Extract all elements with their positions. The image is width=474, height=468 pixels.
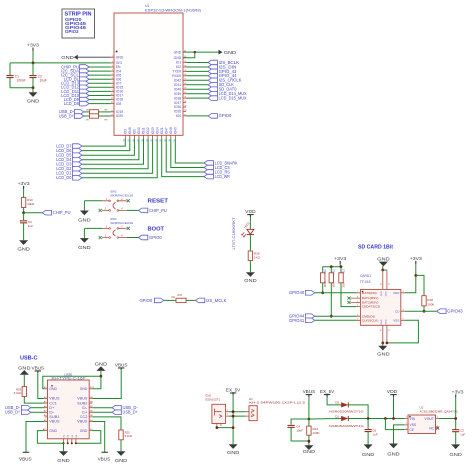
net label LCD_D3 <box>73 162 82 167</box>
power VDD bar <box>247 215 253 217</box>
svg-text:VBUS: VBUS <box>32 365 45 370</box>
capacitor C4 <box>288 425 295 427</box>
wire USB_D- to U1 <box>99 111 111 113</box>
svg-text:SUB1: SUB1 <box>49 415 59 419</box>
svg-text:3: 3 <box>406 428 407 430</box>
wire EX_5V column <box>232 395 234 444</box>
power EX_5V bar <box>324 395 330 397</box>
wire C4 to gnd rail <box>291 427 309 441</box>
usb connector USB1 body <box>48 380 90 439</box>
wire C5 to gnd <box>455 432 457 445</box>
CARD1 right pin stubs <box>401 293 405 321</box>
svg-text:D2: D2 <box>335 400 339 404</box>
svg-text:IO35: IO35 <box>174 110 181 114</box>
svg-text:3: 3 <box>357 315 358 317</box>
net label LCD_D12 <box>80 85 89 90</box>
ground below CARD1 <box>378 346 387 351</box>
svg-text:100K: 100K <box>427 303 434 307</box>
svg-text:I2S_MCLK: I2S_MCLK <box>206 298 227 303</box>
svg-text:IO12: IO12 <box>146 127 150 134</box>
svg-text:GPIO0: GPIO0 <box>219 113 232 118</box>
net label GPIO40 <box>305 291 314 296</box>
wire LCD_BL <box>89 78 111 80</box>
wire rail to R13 <box>340 267 342 273</box>
wire +3V3 column <box>455 397 457 429</box>
svg-text:D+: D+ <box>82 411 87 415</box>
svg-text:100K: 100K <box>313 431 320 435</box>
svg-text:ESP32-S3-WROOM-1(N16R8): ESP32-S3-WROOM-1(N16R8) <box>145 8 201 12</box>
U2 pin stubs <box>405 419 440 430</box>
svg-text:GND: GND <box>17 246 30 251</box>
wire C1 top lead <box>9 63 11 76</box>
svg-text:CHIP_PU: CHIP_PU <box>149 208 167 213</box>
net label LCD_D2 <box>73 166 82 171</box>
net label USB_D- <box>21 405 30 410</box>
net label I2S_DIN <box>208 65 217 70</box>
svg-text:GPIO0: GPIO0 <box>149 235 162 240</box>
svg-text:1KΩ: 1KΩ <box>254 256 261 260</box>
capacitor C6 <box>365 430 372 432</box>
capacitor C3 <box>20 221 27 223</box>
wire USB_D- <box>31 407 45 409</box>
no-connect SW3 pin3 <box>99 236 102 239</box>
svg-text:2: 2 <box>112 61 113 63</box>
junction <box>308 440 311 443</box>
svg-text:LCD_WR: LCD_WR <box>215 174 230 179</box>
wire R24 to gnd <box>308 435 310 445</box>
wire to CHIP_PU label <box>24 212 43 214</box>
svg-text:32: 32 <box>184 92 186 94</box>
wire C6 to gnd <box>367 432 369 445</box>
wire USB_D+ to U1 <box>99 115 111 117</box>
ground below C6 <box>364 444 373 449</box>
junction <box>381 342 384 345</box>
wire VBUS to A4 <box>38 373 45 398</box>
CARD1 left pin stubs <box>351 293 361 321</box>
net label LCD_D4 <box>73 157 82 162</box>
svg-text:D+: D+ <box>49 406 54 410</box>
power flag GND right of U1 <box>219 50 223 55</box>
svg-text:IO42: IO42 <box>174 79 181 83</box>
svg-text:GND: GND <box>385 291 387 296</box>
wire CN2 sleeve to gnd <box>217 426 233 428</box>
svg-text:GND: GND <box>303 449 316 454</box>
wire LED1 to R28 <box>249 235 251 251</box>
ground <box>246 272 255 277</box>
svg-text:IO40: IO40 <box>174 87 181 91</box>
svg-text:R11: R11 <box>324 269 327 274</box>
svg-text:SKRPACE010: SKRPACE010 <box>110 193 133 197</box>
wire GPIO_44 <box>186 75 208 77</box>
svg-text:GND: GND <box>381 319 383 324</box>
power VBUS bar <box>118 368 124 370</box>
wire LCD_D5 <box>82 138 134 155</box>
wire CC2 to R25 <box>92 417 121 430</box>
wire VBUS down right <box>92 422 104 453</box>
net label LCD_D11 <box>80 89 89 94</box>
svg-text:GND: GND <box>244 278 257 283</box>
net label LCD_D10 <box>80 93 89 98</box>
wire I2C_SCL <box>89 74 111 76</box>
svg-text:VDD: VDD <box>387 389 398 394</box>
svg-text:LCD_D8: LCD_D8 <box>64 101 80 106</box>
net label GPIO41 <box>305 318 314 323</box>
svg-text:GND: GND <box>362 452 375 457</box>
net label USB_D+ <box>21 410 30 415</box>
svg-text:5.1kΩ: 5.1kΩ <box>14 391 21 395</box>
resistor R25 5.1k <box>119 430 123 440</box>
svg-text:VBUS: VBUS <box>115 362 128 367</box>
ground <box>80 238 89 243</box>
svg-text:5: 5 <box>112 74 113 76</box>
svg-text:+3V3: +3V3 <box>334 256 347 261</box>
no-connect SW2 pin2 <box>127 199 130 202</box>
switch SW3 contacts <box>102 228 127 237</box>
net label GPIO_43 <box>208 69 217 74</box>
resistor R23 5.1k <box>22 387 26 397</box>
svg-text:5: 5 <box>437 417 438 419</box>
resistor R8 0ohm <box>90 110 99 114</box>
power VBUS bar <box>35 371 41 373</box>
svg-text:IO39: IO39 <box>174 92 181 96</box>
svg-text:14: 14 <box>111 114 113 116</box>
svg-text:IO11: IO11 <box>142 127 146 134</box>
svg-text:35: 35 <box>184 79 186 81</box>
svg-text:7: 7 <box>357 291 358 293</box>
svg-text:LCD_D15_MUX: LCD_D15_MUX <box>219 95 247 100</box>
wire rail to CE <box>385 419 404 430</box>
wire VDD to LED1 <box>249 217 251 229</box>
net label LCD_RS <box>204 170 213 175</box>
wire GPIO0 to R17 <box>164 299 176 301</box>
svg-text:SD CARD 1Bit: SD CARD 1Bit <box>358 245 393 251</box>
wire R18 to CD <box>423 306 425 311</box>
wire I2S_BCLK <box>186 62 208 64</box>
svg-text:IO3: IO3 <box>124 129 128 134</box>
svg-text:GND: GND <box>57 458 70 463</box>
svg-text:5.1kΩ: 5.1kΩ <box>125 434 132 438</box>
net label CHIP_PU <box>138 208 147 213</box>
junction <box>392 417 395 420</box>
svg-text:B8: B8 <box>90 401 93 403</box>
net label GPIO0 <box>154 298 163 303</box>
no-connect SW2 pin3 <box>99 209 102 212</box>
wire <box>10 62 111 64</box>
svg-text:SKRPACE010: SKRPACE010 <box>110 221 133 225</box>
junction <box>381 269 384 272</box>
capacitor C1 plates <box>6 76 13 78</box>
svg-text:SUB2: SUB2 <box>77 401 87 405</box>
CARD1 pin-1 dot <box>362 291 364 293</box>
wire LCD_D6 <box>82 138 130 150</box>
wire GPIO44 to CMD <box>315 315 357 317</box>
svg-text:VBUS: VBUS <box>77 397 88 401</box>
svg-text:GND: GND <box>49 429 57 433</box>
net label LCD_D15_MUX <box>208 96 217 101</box>
wire LCD_D15_MUX <box>186 97 208 99</box>
svg-text:1: 1 <box>357 301 358 303</box>
svg-text:DAT0(D0): DAT0(D0) <box>362 291 377 295</box>
wire I2S_LRCLK <box>186 79 208 81</box>
USB1 pin-1 dot <box>51 385 53 387</box>
svg-text:VSS: VSS <box>393 318 399 322</box>
ground below U2 <box>389 444 398 449</box>
junction shield pins <box>63 442 65 444</box>
svg-text:11: 11 <box>388 330 390 332</box>
svg-text:RESET: RESET <box>148 199 169 205</box>
svg-text:IO13: IO13 <box>151 127 155 134</box>
junction <box>232 410 235 413</box>
svg-text:8: 8 <box>112 86 113 88</box>
svg-text:+3V3: +3V3 <box>18 181 31 186</box>
svg-text:R9: R9 <box>105 119 109 121</box>
net label CHIP_PU <box>42 210 51 215</box>
svg-text:IO2: IO2 <box>176 65 182 69</box>
net label LCD_CS <box>204 165 213 170</box>
svg-text:IO20: IO20 <box>116 114 123 118</box>
net label I2S_MCLK <box>195 298 204 303</box>
svg-text:9: 9 <box>112 90 113 92</box>
svg-text:37: 37 <box>184 70 186 72</box>
svg-text:33: 33 <box>184 88 186 90</box>
USB1 left pin stubs <box>44 389 47 431</box>
svg-text:IO46: IO46 <box>128 127 132 134</box>
svg-text:2: 2 <box>406 423 407 425</box>
wire VSS to gnd <box>394 425 405 444</box>
resistor R18 <box>422 296 426 306</box>
junction <box>330 315 333 318</box>
wire LCD_D14_MUX <box>186 93 208 95</box>
wire C1 bottom lead <box>9 78 11 88</box>
net label LCD_D6 <box>73 148 82 153</box>
junction GND <box>194 51 196 53</box>
ground <box>29 92 38 97</box>
net label LCD_3MARK <box>204 161 213 166</box>
wire SD_CLK <box>186 84 208 86</box>
resistor R24 <box>307 426 311 435</box>
svg-text:VOUT: VOUT <box>424 417 434 421</box>
regulator U2 body <box>408 415 436 434</box>
svg-text:USB_D+: USB_D+ <box>123 410 139 415</box>
wire USB_D- <box>92 407 112 409</box>
wire R17 to I2S_MCLK <box>186 299 195 301</box>
wire LCD_RS <box>166 138 204 172</box>
wire A1 GND over box <box>43 376 101 389</box>
net label LCD_D5 <box>73 153 82 158</box>
wire LCD_D8 <box>89 103 111 105</box>
svg-text:GND: GND <box>18 365 31 370</box>
svg-text:+3V3: +3V3 <box>452 390 465 395</box>
wire to R18 <box>416 275 424 295</box>
svg-text:6: 6 <box>112 78 113 80</box>
svg-text:1uF: 1uF <box>460 433 465 437</box>
resistor R13 100K <box>339 273 343 283</box>
svg-text:0R: 0R <box>86 119 89 121</box>
U1 bottom pin stubs <box>125 135 175 138</box>
svg-text:IO41: IO41 <box>174 83 181 87</box>
svg-text:27: 27 <box>184 114 186 116</box>
net label GPIO0 <box>138 235 147 240</box>
svg-text:IO21: IO21 <box>160 127 164 134</box>
svg-text:IO47: IO47 <box>164 127 168 134</box>
svg-text:4: 4 <box>403 291 404 293</box>
svg-text:EX_5V: EX_5V <box>320 389 335 394</box>
wire node to C3 <box>23 213 25 220</box>
svg-text:1: 1 <box>406 417 407 419</box>
wire switch to GPIO0 <box>127 237 139 239</box>
switch SW2 actuator arc <box>113 202 115 208</box>
wire LCD_3MARK <box>175 138 204 163</box>
svg-text:VIN: VIN <box>410 417 416 421</box>
mcu U1 ESP32-S3-WROOM-1 body <box>114 13 183 135</box>
svg-text:IO0: IO0 <box>176 114 182 118</box>
net label LCD_D8 <box>80 101 89 106</box>
svg-text:13: 13 <box>111 110 113 112</box>
svg-text:11: 11 <box>111 98 113 100</box>
svg-text:CHIP_PU: CHIP_PU <box>53 210 71 215</box>
svg-text:8: 8 <box>357 297 358 299</box>
junction <box>32 86 35 89</box>
wire CN2 to H1 pin2 <box>229 415 246 417</box>
power EX_5V bar <box>230 393 236 395</box>
net label USB_D+ <box>74 114 83 119</box>
wire R28 to gnd <box>249 261 251 273</box>
USB1 right pin stubs <box>89 389 92 431</box>
wire LCD_WR <box>162 138 204 176</box>
junction <box>384 417 387 420</box>
svg-text:30: 30 <box>184 101 186 103</box>
svg-text:VBUS: VBUS <box>19 457 32 462</box>
net label GPIO44 <box>305 314 314 319</box>
ground symbol <box>96 366 105 371</box>
switch SW2 contacts <box>102 201 127 211</box>
svg-text:28: 28 <box>184 110 186 112</box>
net label I2S_LRCLK <box>208 78 217 83</box>
svg-text:LTST-C190KRKT: LTST-C190KRKT <box>232 217 236 249</box>
svg-text:7: 7 <box>112 82 113 84</box>
wire LCD_D10 <box>89 95 111 97</box>
resistor R12 100K <box>329 273 333 283</box>
svg-text:100nF: 100nF <box>17 79 26 83</box>
wire CN2 to H1 pin1 <box>229 411 246 413</box>
svg-text:13: 13 <box>379 284 381 286</box>
svg-text:VBUS: VBUS <box>49 397 60 401</box>
resistor R17 0ohm <box>176 298 186 302</box>
junction <box>216 426 219 429</box>
svg-text:1: 1 <box>112 56 113 58</box>
wire rail to C6 <box>367 419 369 430</box>
wire gnd stem <box>100 371 102 376</box>
wire CD to GPIO43 <box>405 310 437 312</box>
wire gnd stem <box>382 266 384 270</box>
wire GPIO0 <box>186 115 208 117</box>
wire C2 bottom lead <box>32 78 34 88</box>
net label SD_DAT0 <box>208 87 217 92</box>
connector CN2 body <box>212 404 226 423</box>
svg-text:GND: GND <box>174 50 182 54</box>
power VBUS bottom-right <box>102 451 108 453</box>
svg-text:EX_5V: EX_5V <box>226 387 241 392</box>
wire U1 GND pin61 <box>183 51 219 53</box>
svg-text:10kΩ: 10kΩ <box>27 202 35 206</box>
power VDD bar <box>390 395 396 397</box>
svg-text:100K: 100K <box>324 281 327 287</box>
svg-text:0Ω: 0Ω <box>171 295 174 299</box>
wire LCD_D11 <box>89 90 111 92</box>
svg-text:USB_D+: USB_D+ <box>5 410 21 415</box>
net label I2S_BCLK <box>208 60 217 65</box>
wire LCD_D12 <box>89 86 111 88</box>
net label LCD_D14_MUX <box>208 91 217 96</box>
junction <box>232 426 235 429</box>
wire GND to U1 <box>78 56 111 58</box>
wire LCD_D13 <box>89 82 111 84</box>
svg-text:R17: R17 <box>178 293 183 297</box>
wire R13 to CDDAT3 <box>341 283 357 307</box>
svg-text:R12: R12 <box>333 269 336 274</box>
svg-text:GND: GND <box>78 245 91 250</box>
svg-text:KH-2.54PW180-1X2P-L11.5: KH-2.54PW180-1X2P-L11.5 <box>249 401 305 405</box>
svg-text:GND: GND <box>80 387 88 391</box>
junction <box>423 310 426 313</box>
svg-text:0R: 0R <box>86 110 89 112</box>
wire VBUS to B9 <box>92 370 121 398</box>
wire gnd rail <box>10 87 33 89</box>
svg-text:GPIO40: GPIO40 <box>289 290 305 295</box>
wire shield bus to gnd <box>63 443 65 451</box>
CARD1 top GND pin stubs <box>383 270 387 289</box>
net label USB_D- <box>74 110 83 115</box>
svg-text:34: 34 <box>184 83 186 85</box>
svg-text:CC2: CC2 <box>80 415 88 419</box>
wire +3V3 to R10 <box>23 189 25 198</box>
svg-text:GND: GND <box>27 99 40 104</box>
svg-text:3: 3 <box>112 65 113 67</box>
junction <box>386 342 389 345</box>
power VBUS bottom-left <box>23 451 29 453</box>
svg-text:29: 29 <box>184 105 186 107</box>
H1 pin numbers and stubs <box>246 412 249 416</box>
svg-text:9: 9 <box>403 310 404 312</box>
svg-text:GND: GND <box>116 55 124 59</box>
ground below USB1 <box>59 451 68 456</box>
svg-text:LED1: LED1 <box>243 221 251 229</box>
svg-text:GND: GND <box>174 56 182 60</box>
svg-text:NSR0520MW2T1G: NSR0520MW2T1G <box>329 424 364 428</box>
net label LCD_D1 <box>73 171 82 176</box>
wire LCD_D3 <box>82 138 144 164</box>
diode D1 <box>341 416 348 421</box>
wire to B12 GND <box>92 376 101 389</box>
strip-pin note box <box>62 9 95 38</box>
sd-card connector CARD1 body <box>360 289 400 325</box>
led LED1 <box>247 229 254 234</box>
wire +3V3 stem <box>339 264 341 267</box>
USB1 shield pin stubs S1-S4 <box>64 439 76 444</box>
svg-text:IO8: IO8 <box>116 102 122 106</box>
net label LCD_D7 <box>73 144 82 149</box>
wire LCD_D7 <box>82 138 125 146</box>
svg-text:S32610271: S32610271 <box>205 397 220 401</box>
wire USB_D+ <box>31 411 45 413</box>
ground <box>19 240 28 245</box>
capacitor C5 <box>452 430 459 432</box>
net label USB_D+ <box>112 410 121 415</box>
svg-text:CC1: CC1 <box>49 401 57 405</box>
connector H1 body <box>249 406 257 421</box>
wire switch to gnd <box>83 201 85 211</box>
wire R23 to CC1 <box>24 397 44 404</box>
